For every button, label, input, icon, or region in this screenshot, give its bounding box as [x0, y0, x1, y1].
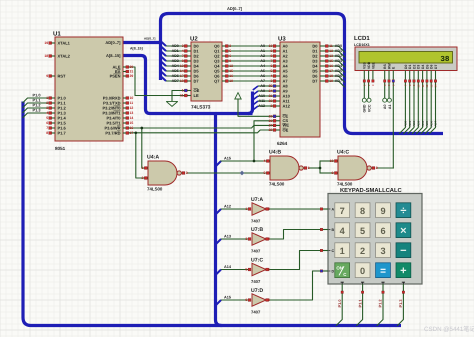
U3 pin 11 D0 net AD0	[320, 45, 327, 47]
svg-text:18: 18	[180, 79, 184, 83]
svg-text:12: 12	[130, 106, 134, 110]
U2 pin 11 LE	[185, 95, 192, 97]
U3 pin 9 A1	[274, 50, 281, 52]
svg-text:17: 17	[180, 74, 184, 78]
junction diamond on U4A-U4B wire	[240, 171, 245, 176]
U3 pin 24 A9	[274, 90, 281, 92]
svg-text:5: 5	[46, 116, 48, 120]
svg-text:AD7: AD7	[172, 79, 179, 83]
svg-text:=: =	[380, 266, 386, 277]
U2 pin 4 D1 net AD1	[185, 50, 192, 52]
U3 pin 17 D5 net AD5	[320, 70, 327, 72]
svg-text:A[8..15]: A[8..15]	[106, 53, 121, 58]
svg-text:6: 6	[308, 166, 310, 170]
svg-text:5: 5	[271, 69, 273, 73]
U3 pin 13 D2 net AD2	[320, 55, 327, 57]
svg-text:A15: A15	[224, 296, 231, 300]
svg-text:VCC: VCC	[367, 104, 371, 112]
svg-text:9: 9	[271, 49, 273, 53]
buffer U7:A 7407	[252, 203, 266, 215]
wire WR: U1 P3.6 to U3 WE	[129, 125, 274, 128]
keypad column pin 1 net P1.0	[341, 284, 343, 291]
svg-text:19: 19	[229, 79, 233, 83]
svg-text:4: 4	[264, 159, 266, 163]
svg-text:AD5: AD5	[335, 69, 342, 73]
svg-text:D7: D7	[434, 65, 438, 69]
U1 pin 15 P3.5/T1	[123, 122, 126, 124]
svg-text:29: 29	[130, 74, 134, 78]
svg-text:4: 4	[46, 111, 48, 115]
key =	[376, 263, 391, 278]
U1 pin 9 RST	[52, 75, 56, 77]
junction U4C inputs	[319, 167, 322, 170]
wire U3 CE to power arrow	[238, 99, 274, 116]
U3 pin 21 A10	[274, 95, 281, 97]
svg-text:10: 10	[269, 44, 273, 48]
U2 pin 9 Q3	[222, 60, 228, 62]
key 9	[376, 203, 391, 218]
svg-text:3: 3	[245, 237, 247, 241]
key 3	[376, 243, 391, 258]
U2 pin 18 D7 net AD7	[185, 80, 192, 82]
U2 pin 14 D5 net AD5	[185, 70, 192, 72]
U1 pin 12 P3.2/INT0	[123, 107, 126, 109]
U3 pin 7 A3	[274, 60, 281, 62]
svg-text:A1: A1	[260, 49, 265, 53]
U2 pin 7 D2 net AD2	[185, 55, 192, 57]
keypad row pin A	[322, 208, 328, 210]
U2 pin 6 Q2	[222, 55, 228, 57]
U3 pin 27 WE	[274, 124, 281, 126]
svg-text:6264: 6264	[277, 141, 288, 146]
U2 pin 17 D6 net AD6	[185, 75, 192, 77]
svg-text:A15: A15	[224, 157, 231, 161]
svg-text:1: 1	[182, 89, 184, 93]
svg-text:74LS00: 74LS00	[337, 181, 353, 186]
key +	[396, 263, 411, 278]
U2 pin 13 D4 net AD4	[185, 65, 192, 67]
svg-text:3: 3	[46, 106, 48, 110]
svg-text:26: 26	[269, 119, 273, 123]
svg-text:CSDN @5441笔记: CSDN @5441笔记	[424, 325, 474, 333]
svg-text:4: 4	[271, 74, 273, 78]
key 5	[355, 223, 370, 238]
svg-text:A8: A8	[260, 84, 265, 88]
terminal circles GND VCC	[362, 98, 366, 102]
svg-text:A9: A9	[260, 89, 265, 93]
svg-text:5: 5	[229, 49, 231, 53]
U1 pin 31 EA	[123, 71, 126, 73]
svg-text:14: 14	[434, 84, 438, 88]
wire P1.2 to bus	[23, 108, 49, 113]
svg-text:6: 6	[46, 121, 48, 125]
svg-text:AD1: AD1	[172, 49, 179, 53]
nand gate U4:A	[148, 161, 177, 185]
svg-text:8: 8	[271, 54, 273, 58]
buffer U7:C 7407	[252, 263, 266, 275]
U3 pin 10 A0	[274, 45, 281, 47]
svg-text:AD7: AD7	[335, 79, 342, 83]
svg-text:AD[0..7]: AD[0..7]	[227, 6, 243, 11]
svg-text:17: 17	[130, 131, 134, 135]
svg-text:6: 6	[229, 54, 231, 58]
svg-text:LCD1: LCD1	[354, 35, 370, 42]
svg-text:U2: U2	[190, 36, 198, 43]
svg-text:AD2: AD2	[335, 54, 342, 58]
U1 pin 4 P1.3	[52, 112, 56, 114]
buffer U7:D 7407	[252, 294, 266, 306]
svg-text:2: 2	[142, 176, 144, 180]
svg-text:AD0: AD0	[335, 44, 342, 48]
svg-text:XTAL2: XTAL2	[58, 53, 71, 58]
svg-text:14: 14	[130, 116, 134, 120]
svg-text:15: 15	[130, 121, 134, 125]
svg-text:7407: 7407	[251, 249, 261, 254]
bus entry stubs to U2 D0-D7	[161, 41, 167, 81]
wires bus to U2 D0-D7	[166, 45, 185, 47]
svg-text:A2: A2	[260, 54, 265, 58]
key 6	[376, 223, 391, 238]
wire P1.3 to bus	[23, 113, 49, 118]
svg-text:10: 10	[330, 159, 334, 163]
wires LCD RS/RW to terminals A0 A1	[384, 83, 386, 99]
nand gate U4:B	[270, 156, 299, 180]
wires keypad columns to P1 bus	[336, 293, 342, 326]
svg-text:9: 9	[380, 206, 385, 216]
wires LCD VSS/VDD to terminals	[363, 83, 365, 99]
U3 pin 3 A7	[274, 80, 281, 82]
wire U7:C output to keypad C	[266, 251, 320, 270]
svg-text:30: 30	[130, 65, 134, 69]
svg-text:AD4: AD4	[172, 64, 179, 68]
svg-text:AD6: AD6	[172, 74, 179, 78]
svg-text:9: 9	[332, 171, 334, 175]
svg-text:38: 38	[440, 55, 450, 64]
wire RD: U1 P3.7 to U3 OE	[129, 130, 274, 133]
buffer U7:B 7407	[252, 233, 266, 245]
svg-text:21: 21	[269, 94, 273, 98]
wire U7:B output to keypad B	[266, 230, 320, 240]
keypad column pin 3 net P1.2	[382, 284, 384, 291]
svg-text:U4:B: U4:B	[269, 150, 281, 156]
svg-text:1: 1	[245, 207, 247, 211]
U3 pin 6 A4	[274, 65, 281, 67]
svg-text:74LS00: 74LS00	[147, 186, 163, 191]
wire U7:D output to keypad D	[266, 271, 320, 300]
svg-text:AD7: AD7	[434, 120, 438, 126]
U2 pin 15 Q5	[222, 70, 228, 72]
U3 pin 4 A6	[274, 75, 281, 77]
svg-text:12: 12	[329, 49, 333, 53]
svg-text:AD4: AD4	[335, 64, 342, 68]
svg-text:U7:D: U7:D	[251, 288, 263, 294]
U3 pin 5 A5	[274, 70, 281, 72]
svg-text:A3: A3	[260, 59, 265, 63]
svg-text:17: 17	[329, 69, 333, 73]
keypad column pin 2 net P1.1	[362, 284, 364, 291]
U1 pin 13 P3.3/INT1	[123, 112, 126, 114]
U3 pin 12 D1 net AD1	[320, 50, 327, 52]
svg-text:A14: A14	[224, 265, 232, 269]
key multiply	[396, 223, 411, 238]
bus A[8..15] from U1 down and across	[123, 56, 253, 114]
svg-text:8: 8	[46, 131, 48, 135]
svg-text:11: 11	[130, 101, 134, 105]
nand gate U4:C	[338, 156, 367, 180]
svg-text:AD2: AD2	[172, 54, 179, 58]
svg-text:19: 19	[329, 79, 333, 83]
svg-text:+: +	[400, 265, 406, 277]
svg-text:12: 12	[229, 64, 233, 68]
svg-text:U7:A: U7:A	[251, 197, 263, 203]
wire U4:A output to U4:B pin5	[187, 172, 267, 174]
key minus	[396, 243, 411, 258]
svg-text:D7: D7	[312, 78, 318, 83]
U3 pin 22 OE	[274, 129, 281, 131]
wire U7:A output to keypad A	[266, 208, 320, 210]
svg-text:A10: A10	[258, 94, 265, 98]
keypad row pin D	[322, 270, 328, 272]
U3 pin 8 A2	[274, 55, 281, 57]
key 4	[335, 223, 350, 238]
svg-text:14: 14	[180, 69, 184, 73]
svg-text:AD0: AD0	[172, 44, 179, 48]
U1 pin 7 P1.6	[52, 127, 56, 129]
U1 pin 29 PSEN	[123, 75, 126, 77]
svg-text:9: 9	[229, 59, 231, 63]
U1 pin 17 P3.7/RD	[123, 132, 126, 134]
wire buffer U7:C input	[221, 269, 248, 271]
svg-text:AD5: AD5	[172, 69, 179, 73]
wire buffer U7:A input	[221, 208, 248, 210]
bus AD[0..7] from U1 to top rail and right vertical down to LCD rail	[123, 41, 161, 44]
svg-text:U4:A: U4:A	[147, 155, 159, 161]
svg-text:P1.1: P1.1	[357, 299, 362, 308]
svg-text:LE: LE	[194, 93, 199, 98]
svg-text:11: 11	[329, 44, 333, 48]
U3 pin 26 CS	[274, 120, 281, 122]
wire U4:C output to LCD E	[377, 167, 393, 169]
svg-text:3: 3	[186, 171, 188, 175]
svg-text:A13: A13	[224, 235, 231, 239]
bus entry stubs to A15 / buffers	[216, 161, 222, 306]
mcu U1 8051 body	[55, 37, 123, 141]
svg-text:U4:C: U4:C	[337, 150, 349, 156]
svg-text:÷: ÷	[400, 205, 406, 217]
bus A[12..15] vertical to buffers and bottom rail	[216, 114, 222, 326]
svg-text:8: 8	[360, 206, 365, 216]
svg-text:7: 7	[340, 206, 345, 216]
svg-text:1: 1	[142, 166, 144, 170]
key 0	[355, 263, 370, 278]
U1 pin 14 P3.4/T0	[123, 117, 126, 119]
svg-text:P1.2: P1.2	[378, 299, 383, 308]
latch U2 74LS373 body	[191, 42, 222, 101]
svg-text:P1.7: P1.7	[58, 130, 67, 135]
wire P1.0 to bus	[23, 98, 49, 103]
svg-text:20: 20	[269, 115, 273, 119]
U1 pin 30 ALE	[123, 66, 126, 68]
svg-text:P1.3: P1.3	[33, 108, 42, 113]
svg-text:7407: 7407	[251, 219, 261, 224]
svg-text:10: 10	[130, 96, 134, 100]
U1 pin 6 P1.5	[52, 122, 56, 124]
svg-text:27: 27	[269, 124, 273, 128]
svg-text:9: 9	[245, 298, 247, 302]
U2 pin 8 D3 net AD3	[185, 60, 192, 62]
svg-text:24: 24	[269, 89, 273, 93]
U1 pin 3 P1.2	[52, 107, 56, 109]
U1 pin 10 P3.0/RXD	[123, 97, 126, 99]
junction A15/CS	[253, 160, 256, 163]
svg-text:11: 11	[180, 94, 184, 98]
U1 pin 8 P1.7	[52, 132, 56, 134]
U2 pin 5 Q1	[222, 50, 228, 52]
svg-text:15: 15	[229, 69, 233, 73]
svg-text:A4: A4	[260, 64, 265, 68]
U2 pin 1 OE	[185, 90, 192, 92]
ground symbol under U2 OE	[166, 101, 178, 106]
svg-text:22: 22	[269, 128, 273, 132]
svg-text:A12: A12	[224, 205, 231, 209]
svg-text:D7: D7	[194, 78, 200, 83]
svg-text:U7:B: U7:B	[251, 227, 263, 233]
svg-text:4: 4	[340, 226, 346, 236]
svg-text:A6: A6	[260, 74, 265, 78]
U1 pin 1 P1.0	[52, 97, 56, 99]
svg-text:A1: A1	[388, 105, 392, 110]
svg-text:U7:C: U7:C	[251, 257, 263, 263]
svg-text:9: 9	[46, 74, 48, 78]
U3 pin 20 CE	[274, 115, 281, 117]
svg-text:B: B	[332, 228, 335, 232]
wires LCD D0-D7 down to AD bus rail	[399, 83, 405, 134]
svg-text:P1.0: P1.0	[337, 299, 342, 307]
svg-text:LCD16X1: LCD16X1	[354, 43, 370, 47]
svg-text:7407: 7407	[251, 279, 261, 284]
svg-text:AD3: AD3	[335, 59, 342, 63]
svg-text:19: 19	[44, 41, 48, 45]
svg-text:A0: A0	[383, 105, 387, 110]
wire buffer U7:B input	[221, 238, 248, 240]
keypad row pin B	[322, 229, 328, 231]
key 8	[355, 203, 370, 218]
bus P1[0..3] left vertical + bottom rail	[23, 102, 401, 326]
wire U4:B output to U4:C tied inputs	[309, 167, 320, 169]
svg-text:16: 16	[229, 74, 233, 78]
U1 pin 2 P1.1	[52, 102, 56, 104]
wire P1.1 to bus	[23, 103, 49, 108]
key ON/C	[335, 263, 350, 278]
U3 pin 19 D7 net AD7	[320, 80, 327, 82]
svg-text:5: 5	[264, 171, 266, 175]
svg-text:XTAL1: XTAL1	[58, 40, 71, 45]
svg-text:Q7: Q7	[214, 78, 220, 83]
svg-text:A: A	[332, 207, 335, 211]
svg-text:6: 6	[380, 226, 385, 236]
svg-text:3: 3	[182, 44, 184, 48]
wire U2 OE to ground	[172, 91, 186, 102]
svg-text:VEE: VEE	[371, 61, 375, 69]
svg-text:C: C	[332, 249, 335, 253]
U1 pin 5 P1.4	[52, 117, 56, 119]
U3 pin 23 A11	[274, 100, 281, 102]
svg-text:74LS00: 74LS00	[269, 181, 285, 186]
U1 pin 19 XTAL1	[52, 42, 56, 44]
svg-text:25: 25	[269, 84, 273, 88]
power arrow VCC	[235, 93, 241, 99]
svg-text:A12: A12	[283, 103, 291, 108]
svg-text:AD1: AD1	[335, 49, 342, 53]
wires bus fan to U3 A8-A12	[258, 85, 274, 87]
svg-text:6: 6	[271, 64, 273, 68]
U3 pin 18 D6 net AD6	[320, 75, 327, 77]
wires U3 D0-D7 to AD bus	[327, 46, 345, 52]
LCD screen showing 38	[359, 52, 453, 64]
svg-text:A7: A7	[260, 79, 265, 83]
svg-text:U1: U1	[53, 31, 61, 38]
svg-text:−: −	[400, 245, 406, 257]
svg-text:7407: 7407	[251, 310, 261, 315]
svg-text:3: 3	[271, 79, 273, 83]
svg-text:AD6: AD6	[335, 74, 342, 78]
svg-text:AD[0..7]: AD[0..7]	[144, 36, 155, 40]
U2 pin 3 D0 net AD0	[185, 45, 192, 47]
svg-text:13: 13	[180, 64, 184, 68]
svg-text:7: 7	[46, 126, 48, 130]
keypad row pin C	[322, 250, 328, 252]
svg-text:U3: U3	[278, 36, 286, 43]
wire A15 to U4:B pin4	[221, 160, 267, 162]
U2 pin 16 Q6	[222, 75, 228, 77]
svg-text:1: 1	[340, 246, 345, 256]
svg-text:3: 3	[380, 246, 385, 256]
svg-text:7: 7	[182, 54, 184, 58]
svg-text:A0: A0	[260, 44, 265, 48]
wire RD tap to U4:A pin2	[136, 133, 147, 178]
ram U3 6264 body	[280, 42, 320, 137]
svg-text:18: 18	[44, 54, 48, 58]
svg-text:74LS373: 74LS373	[191, 104, 211, 110]
svg-text:AD3: AD3	[172, 59, 179, 63]
svg-text:×: ×	[400, 225, 406, 237]
junction RD/U4A	[134, 131, 137, 134]
keypad column pin 4 net P1.3	[402, 284, 404, 291]
svg-text:7: 7	[271, 59, 273, 63]
wire U3 CS down to A15 net	[254, 121, 274, 161]
wire WR tap to U4:A pin1	[142, 128, 147, 168]
U3 pin 15 D3 net AD3	[320, 60, 327, 62]
svg-text:16: 16	[130, 126, 134, 130]
key 1	[335, 243, 350, 258]
U2 pin 2 Q0	[222, 45, 228, 47]
svg-text:8: 8	[376, 166, 378, 170]
svg-text:4: 4	[182, 49, 184, 53]
junction WR/U4A	[140, 127, 143, 130]
U3 pin 2 A12	[274, 105, 281, 107]
svg-text:AD[0..7]: AD[0..7]	[105, 40, 121, 45]
bus A[8..15] fan-up to U3 A8-A12	[248, 92, 253, 114]
U1 pin 16 P3.6/WR	[123, 127, 126, 129]
svg-text:A11: A11	[259, 99, 265, 103]
svg-text:18: 18	[329, 74, 333, 78]
U3 pin 25 A8	[274, 85, 281, 87]
svg-text:P1.3: P1.3	[398, 299, 403, 308]
bus fan stubs to U3 A8-A12	[253, 86, 258, 110]
key 7	[335, 203, 350, 218]
wires U2 Q0-Q7 to U3 A0-A7	[227, 45, 274, 47]
U2 pin 12 Q4	[222, 65, 228, 67]
